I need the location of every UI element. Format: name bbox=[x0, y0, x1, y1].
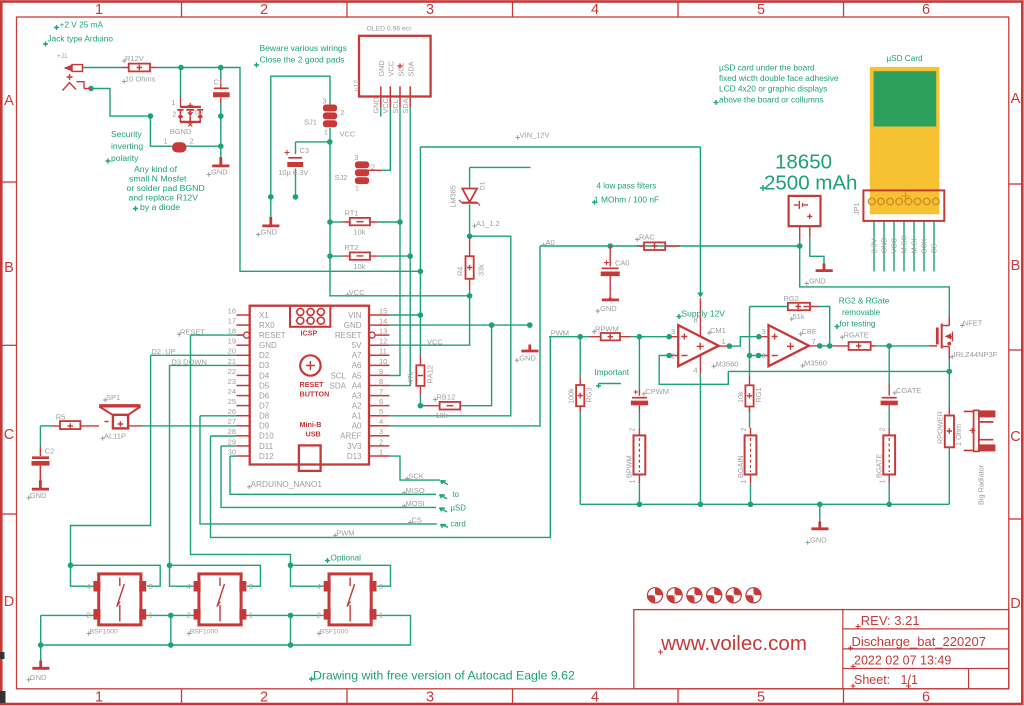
svg-text:21: 21 bbox=[228, 357, 236, 366]
svg-text:CBE: CBE bbox=[802, 327, 817, 336]
svg-text:25: 25 bbox=[228, 397, 236, 406]
svg-text:2: 2 bbox=[260, 2, 268, 18]
svg-text:Jack type Arduino: Jack type Arduino bbox=[48, 34, 114, 44]
svg-text:RESET: RESET bbox=[335, 331, 362, 340]
svg-text:and replace R12V: and replace R12V bbox=[129, 193, 199, 203]
svg-text:R4: R4 bbox=[455, 267, 464, 276]
svg-text:2: 2 bbox=[630, 428, 637, 432]
svg-text:26: 26 bbox=[228, 407, 236, 416]
svg-text:4 low pass filters: 4 low pass filters bbox=[597, 182, 657, 191]
svg-text:ARDUINO_NANO1: ARDUINO_NANO1 bbox=[251, 479, 323, 489]
svg-text:D13: D13 bbox=[347, 452, 362, 461]
svg-text:3: 3 bbox=[426, 690, 434, 706]
svg-text:D8: D8 bbox=[259, 412, 270, 421]
svg-text:LCD 4x20 or graphic displays: LCD 4x20 or graphic displays bbox=[719, 84, 827, 94]
svg-text:GND: GND bbox=[259, 341, 277, 350]
svg-text:10: 10 bbox=[379, 357, 387, 366]
svg-text:X1: X1 bbox=[259, 311, 269, 320]
svg-text:VCC: VCC bbox=[427, 337, 443, 346]
svg-text:7: 7 bbox=[379, 387, 383, 396]
svg-text:2: 2 bbox=[341, 110, 345, 117]
svg-text:M3560: M3560 bbox=[716, 359, 739, 368]
svg-text:51k: 51k bbox=[793, 312, 805, 321]
svg-text:7: 7 bbox=[812, 337, 816, 346]
svg-text:2: 2 bbox=[741, 428, 748, 432]
svg-text:D3 DOWN: D3 DOWN bbox=[172, 357, 207, 366]
svg-text:SDA: SDA bbox=[330, 382, 347, 391]
svg-text:1 MOhm / 100 nF: 1 MOhm / 100 nF bbox=[594, 194, 659, 204]
svg-text:RX0: RX0 bbox=[259, 321, 275, 330]
svg-text:C2: C2 bbox=[45, 447, 55, 456]
svg-text:A2: A2 bbox=[352, 402, 362, 411]
svg-text:33k: 33k bbox=[476, 264, 485, 276]
svg-text:6: 6 bbox=[922, 690, 930, 706]
svg-text:CM1: CM1 bbox=[710, 326, 726, 335]
svg-text:19: 19 bbox=[228, 337, 236, 346]
svg-text:GND: GND bbox=[211, 168, 228, 177]
svg-text:1: 1 bbox=[379, 611, 383, 620]
svg-text:GND: GND bbox=[30, 673, 47, 682]
svg-text:2: 2 bbox=[379, 437, 383, 446]
svg-text:D3: D3 bbox=[259, 361, 270, 370]
svg-text:6: 6 bbox=[762, 352, 766, 361]
svg-text:2: 2 bbox=[187, 611, 191, 620]
svg-text:3: 3 bbox=[379, 427, 383, 436]
svg-text:10k: 10k bbox=[736, 391, 745, 403]
svg-text:3: 3 bbox=[671, 327, 675, 336]
svg-text:10k: 10k bbox=[353, 228, 365, 237]
svg-text:M3560: M3560 bbox=[804, 359, 827, 368]
svg-text:A: A bbox=[1011, 91, 1021, 107]
svg-text:4: 4 bbox=[591, 2, 599, 18]
svg-text:Mini-B: Mini-B bbox=[300, 420, 322, 429]
svg-text:D: D bbox=[4, 594, 14, 610]
svg-text:BUTTON: BUTTON bbox=[300, 390, 330, 399]
svg-text:IRLZ44NP3F: IRLZ44NP3F bbox=[954, 350, 998, 359]
svg-text:BGND: BGND bbox=[170, 127, 192, 136]
svg-text:RESET: RESET bbox=[259, 331, 286, 340]
svg-text:NFET: NFET bbox=[963, 319, 983, 328]
svg-text:OLED 0.96 ecr: OLED 0.96 ecr bbox=[367, 26, 413, 33]
svg-text:1: 1 bbox=[95, 690, 103, 706]
svg-text:4: 4 bbox=[86, 582, 90, 591]
svg-text:C: C bbox=[1010, 429, 1020, 445]
svg-text:GND: GND bbox=[377, 60, 386, 76]
svg-text:GND: GND bbox=[809, 277, 826, 286]
svg-text:1: 1 bbox=[741, 480, 748, 484]
svg-text:VCC: VCC bbox=[381, 98, 390, 113]
svg-text:D7: D7 bbox=[259, 402, 270, 411]
svg-text:18650: 18650 bbox=[775, 150, 832, 173]
svg-text:10µ 6.3V: 10µ 6.3V bbox=[278, 168, 308, 177]
svg-text:20: 20 bbox=[228, 347, 236, 356]
svg-text:2: 2 bbox=[260, 690, 268, 706]
svg-text:www.voilec.com: www.voilec.com bbox=[660, 632, 807, 655]
svg-text:+2 V 25 mA: +2 V 25 mA bbox=[60, 20, 104, 30]
svg-text:RESET: RESET bbox=[300, 380, 325, 389]
svg-text:3V3: 3V3 bbox=[347, 442, 362, 451]
svg-text:28: 28 bbox=[228, 427, 236, 436]
svg-text:4: 4 bbox=[379, 417, 383, 426]
svg-text:2: 2 bbox=[173, 112, 177, 119]
svg-text:u12: u12 bbox=[354, 80, 361, 91]
svg-text:1: 1 bbox=[164, 137, 168, 146]
svg-text:R12V: R12V bbox=[125, 54, 144, 63]
svg-text:A0: A0 bbox=[546, 238, 555, 247]
svg-text:GND: GND bbox=[519, 353, 536, 362]
svg-text:USB: USB bbox=[306, 430, 321, 439]
svg-text:10 Ohms: 10 Ohms bbox=[125, 75, 156, 84]
svg-text:3: 3 bbox=[426, 2, 434, 18]
svg-text:LM385: LM385 bbox=[449, 185, 458, 207]
svg-text:CGATE: CGATE bbox=[896, 386, 921, 395]
svg-text:AREF: AREF bbox=[340, 432, 361, 441]
svg-text:9: 9 bbox=[379, 367, 383, 376]
svg-text:µSD: µSD bbox=[451, 504, 467, 513]
svg-text:A4: A4 bbox=[352, 381, 362, 390]
svg-text:SP1: SP1 bbox=[106, 393, 120, 402]
svg-text:47k: 47k bbox=[406, 371, 415, 383]
svg-text:Drawing with free version of A: Drawing with free version of Autocad Eag… bbox=[313, 669, 575, 683]
svg-text:6: 6 bbox=[922, 2, 930, 18]
svg-text:3: 3 bbox=[379, 582, 383, 591]
svg-text:16: 16 bbox=[228, 306, 236, 315]
svg-text:3.3V: 3.3V bbox=[870, 238, 879, 253]
svg-text:1: 1 bbox=[355, 186, 359, 193]
svg-text:4: 4 bbox=[317, 582, 321, 591]
svg-text:MISO: MISO bbox=[406, 486, 425, 495]
svg-text:for testing: for testing bbox=[840, 320, 876, 329]
svg-text:µSD Card: µSD Card bbox=[886, 54, 923, 63]
svg-text:22: 22 bbox=[228, 367, 236, 376]
svg-text:above the board or collumns: above the board or collumns bbox=[719, 94, 824, 104]
svg-text:SCK: SCK bbox=[409, 472, 424, 481]
svg-text:BGATE: BGATE bbox=[875, 454, 884, 478]
svg-text:GND: GND bbox=[344, 321, 362, 330]
svg-text:SCL: SCL bbox=[330, 371, 346, 380]
svg-text:SCK: SCK bbox=[920, 238, 929, 253]
svg-text:D12: D12 bbox=[259, 452, 274, 461]
svg-text:2: 2 bbox=[371, 165, 375, 172]
svg-text:13: 13 bbox=[379, 327, 387, 336]
svg-text:GND: GND bbox=[880, 237, 889, 253]
svg-text:D: D bbox=[1010, 596, 1020, 612]
svg-text:18: 18 bbox=[228, 327, 236, 336]
svg-text:11: 11 bbox=[379, 347, 387, 356]
svg-text:5: 5 bbox=[379, 407, 383, 416]
svg-text:3: 3 bbox=[762, 327, 766, 336]
svg-text:PWM: PWM bbox=[336, 529, 354, 538]
svg-text:1: 1 bbox=[722, 337, 726, 346]
svg-text:17: 17 bbox=[228, 317, 236, 326]
svg-text:CA0: CA0 bbox=[615, 259, 630, 268]
svg-text:CS: CS bbox=[930, 243, 939, 253]
svg-text:D9: D9 bbox=[259, 422, 270, 431]
svg-text:VCC: VCC bbox=[340, 130, 356, 139]
svg-text:1: 1 bbox=[630, 480, 637, 484]
svg-text:small N Mosfet: small N Mosfet bbox=[129, 174, 187, 184]
svg-text:2: 2 bbox=[317, 611, 321, 620]
svg-text:2: 2 bbox=[86, 611, 90, 620]
svg-text:Important: Important bbox=[595, 368, 630, 377]
svg-text:D2: D2 bbox=[259, 351, 270, 360]
svg-text:5V: 5V bbox=[352, 341, 362, 350]
svg-text:1: 1 bbox=[880, 480, 887, 484]
svg-text:C3: C3 bbox=[300, 146, 310, 155]
svg-text:AL11P: AL11P bbox=[104, 431, 126, 440]
svg-text:1: 1 bbox=[379, 447, 383, 456]
svg-text:1 Ohm: 1 Ohm bbox=[954, 424, 963, 446]
svg-text:2: 2 bbox=[671, 352, 675, 361]
svg-text:BPWM: BPWM bbox=[625, 455, 634, 478]
svg-text:BSF1000: BSF1000 bbox=[90, 629, 119, 636]
svg-text:D4: D4 bbox=[259, 371, 270, 380]
svg-text:CS: CS bbox=[412, 516, 422, 525]
svg-text:3: 3 bbox=[323, 99, 327, 106]
svg-text:polarity: polarity bbox=[111, 153, 139, 163]
svg-text:30: 30 bbox=[228, 447, 236, 456]
svg-text:M.SI: M.SI bbox=[910, 239, 919, 254]
svg-text:GND: GND bbox=[260, 228, 277, 237]
svg-text:BGAIN: BGAIN bbox=[736, 455, 745, 478]
svg-text:5: 5 bbox=[757, 2, 765, 18]
svg-text:CPWM: CPWM bbox=[645, 387, 669, 396]
svg-text:SCL: SCL bbox=[396, 62, 405, 76]
svg-text:C1: C1 bbox=[214, 78, 224, 87]
svg-text:Big Radiator: Big Radiator bbox=[976, 464, 985, 505]
svg-text:GND: GND bbox=[30, 491, 47, 500]
svg-text:RT1: RT1 bbox=[345, 209, 359, 218]
svg-text:D1: D1 bbox=[480, 181, 487, 190]
svg-text:ICSP: ICSP bbox=[301, 329, 318, 338]
svg-text:B: B bbox=[1011, 258, 1021, 274]
svg-text:RPWM: RPWM bbox=[595, 325, 619, 334]
svg-text:GND: GND bbox=[372, 97, 381, 113]
svg-text:GND: GND bbox=[810, 536, 827, 545]
svg-text:inverting: inverting bbox=[111, 141, 143, 151]
svg-text:Any kind of: Any kind of bbox=[134, 164, 178, 174]
svg-text:SJ1: SJ1 bbox=[304, 118, 317, 127]
svg-text:R5: R5 bbox=[56, 412, 66, 421]
svg-text:D11: D11 bbox=[259, 442, 274, 451]
svg-text:Security: Security bbox=[111, 129, 142, 139]
svg-text:1: 1 bbox=[149, 611, 153, 620]
svg-text:fixed wicth double face adhesi: fixed wicth double face adhesive bbox=[719, 73, 839, 83]
svg-text:A1_1.2: A1_1.2 bbox=[476, 219, 500, 228]
svg-text:100k: 100k bbox=[567, 388, 576, 404]
svg-text:2500 mAh: 2500 mAh bbox=[764, 172, 857, 195]
svg-text:8: 8 bbox=[379, 377, 383, 386]
svg-text:27: 27 bbox=[228, 417, 236, 426]
svg-text:MOSI: MOSI bbox=[406, 499, 425, 508]
svg-text:3: 3 bbox=[149, 582, 153, 591]
svg-text:2: 2 bbox=[880, 428, 887, 432]
svg-text:2022 02 07 13:49: 2022 02 07 13:49 bbox=[854, 654, 951, 668]
svg-text:3: 3 bbox=[355, 155, 359, 162]
svg-text:4: 4 bbox=[591, 690, 599, 706]
svg-text:SDA: SDA bbox=[407, 61, 416, 76]
svg-text:M.SO: M.SO bbox=[900, 235, 909, 254]
svg-text:4: 4 bbox=[187, 582, 191, 591]
svg-text:4: 4 bbox=[694, 366, 698, 375]
svg-text:removable: removable bbox=[842, 308, 881, 317]
svg-text:23: 23 bbox=[228, 377, 236, 386]
svg-text:15: 15 bbox=[379, 306, 387, 315]
svg-text:10k: 10k bbox=[353, 262, 365, 271]
svg-text:D6: D6 bbox=[259, 392, 270, 401]
svg-text:SJ2: SJ2 bbox=[335, 173, 348, 182]
svg-text:VIN: VIN bbox=[348, 311, 362, 320]
svg-text:BSF1000: BSF1000 bbox=[190, 629, 219, 636]
svg-text:10k: 10k bbox=[436, 411, 448, 420]
svg-text:1: 1 bbox=[172, 100, 176, 107]
svg-text:29: 29 bbox=[228, 437, 236, 446]
svg-text:GND: GND bbox=[600, 304, 617, 313]
svg-text:A7: A7 bbox=[352, 351, 362, 360]
svg-text:RG1: RG1 bbox=[754, 387, 763, 402]
svg-text:Close the 2 good pads: Close the 2 good pads bbox=[260, 55, 345, 65]
svg-text:SDA: SDA bbox=[401, 98, 410, 113]
svg-text:VCC: VCC bbox=[349, 288, 365, 297]
svg-text:RA12: RA12 bbox=[425, 365, 434, 383]
svg-text:RG2 & RGate: RG2 & RGate bbox=[839, 296, 890, 305]
svg-text:+J1: +J1 bbox=[57, 53, 68, 60]
svg-text:A6: A6 bbox=[352, 361, 362, 370]
svg-text:REV: 3.21: REV: 3.21 bbox=[861, 613, 920, 628]
svg-text:5: 5 bbox=[757, 690, 765, 706]
svg-text:RESET: RESET bbox=[180, 327, 205, 336]
svg-text:RAC: RAC bbox=[639, 233, 655, 242]
svg-text:D2_UP: D2_UP bbox=[152, 347, 176, 356]
svg-text:3: 3 bbox=[249, 582, 253, 591]
svg-text:D10: D10 bbox=[259, 432, 274, 441]
svg-text:A3: A3 bbox=[352, 392, 362, 401]
svg-text:card: card bbox=[451, 520, 466, 529]
svg-text:C: C bbox=[4, 427, 14, 443]
svg-text:RB12: RB12 bbox=[437, 393, 456, 402]
svg-text:12: 12 bbox=[379, 337, 387, 346]
svg-text:6: 6 bbox=[379, 397, 383, 406]
svg-text:SCL: SCL bbox=[391, 99, 400, 113]
svg-text:1: 1 bbox=[249, 611, 253, 620]
svg-text:VCC: VCC bbox=[890, 238, 899, 253]
svg-text:Supply 12V: Supply 12V bbox=[682, 309, 726, 319]
svg-text:D5: D5 bbox=[259, 381, 270, 390]
svg-text:1: 1 bbox=[324, 130, 328, 137]
svg-text:RT2: RT2 bbox=[345, 243, 359, 252]
svg-text:RGATE: RGATE bbox=[844, 330, 869, 339]
svg-text:or solder pad BGND: or solder pad BGND bbox=[127, 183, 205, 193]
svg-text:Beware various wirings: Beware various wirings bbox=[260, 43, 347, 53]
svg-text:VIN_12V: VIN_12V bbox=[520, 131, 550, 140]
svg-text:D3: D3 bbox=[195, 110, 204, 117]
svg-text:PWM: PWM bbox=[551, 328, 569, 337]
svg-text:24: 24 bbox=[228, 387, 236, 396]
svg-text:1: 1 bbox=[95, 2, 103, 18]
svg-text:by a diode: by a diode bbox=[140, 202, 180, 212]
svg-text:RG2: RG2 bbox=[784, 294, 799, 303]
svg-text:RPOWER: RPOWER bbox=[935, 411, 944, 444]
svg-text:A0: A0 bbox=[352, 422, 362, 431]
svg-text:JP1: JP1 bbox=[852, 202, 861, 215]
svg-text:2: 2 bbox=[190, 137, 194, 146]
svg-text:A5: A5 bbox=[352, 371, 362, 380]
svg-text:VCC: VCC bbox=[387, 61, 396, 76]
svg-text:BSF1000: BSF1000 bbox=[320, 629, 349, 636]
svg-text:Discharge_bat_220207: Discharge_bat_220207 bbox=[852, 634, 986, 649]
svg-text:A: A bbox=[4, 93, 14, 109]
svg-text:µSD card under the board: µSD card under the board bbox=[719, 62, 815, 72]
svg-text:A1: A1 bbox=[352, 412, 362, 421]
svg-text:Optional: Optional bbox=[331, 554, 362, 563]
svg-text:to: to bbox=[453, 490, 460, 499]
svg-text:RG3: RG3 bbox=[584, 387, 593, 402]
svg-text:B: B bbox=[4, 260, 14, 276]
svg-text:14: 14 bbox=[379, 317, 387, 326]
